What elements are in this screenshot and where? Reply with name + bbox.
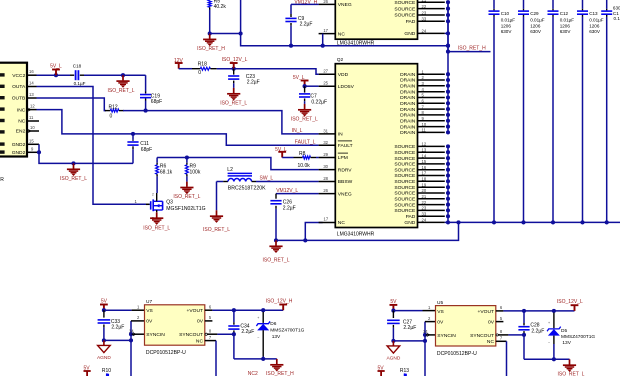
svg-text:SOURCE: SOURCE [394, 167, 416, 173]
svg-text:AGND: AGND [386, 355, 400, 361]
svg-text:LPM: LPM [338, 155, 348, 161]
svg-text:BBSW: BBSW [338, 179, 353, 185]
svg-text:NC2: NC2 [248, 371, 258, 376]
capacitor C27 [392, 311, 394, 318]
pin 9 [27, 151, 39, 153]
svg-text:ISO_RET_L: ISO_RET_L [60, 176, 87, 182]
svg-text:R13: R13 [400, 368, 409, 374]
ground ISO_RET_L [121, 73, 125, 77]
svg-text:OUTA: OUTA [12, 84, 26, 90]
Q2 right pin stubs [418, 73, 445, 75]
svg-text:DRAIN: DRAIN [400, 84, 416, 90]
svg-text:MMSZ4700T1G: MMSZ4700T1G [561, 334, 595, 340]
svg-text:1206: 1206 [589, 23, 600, 28]
svg-text:R18: R18 [198, 62, 207, 68]
svg-text:40.2k: 40.2k [214, 4, 227, 10]
wire Q2 gnd to cap bank [445, 221, 620, 223]
U7 right stubs [205, 309, 213, 311]
svg-text:C13: C13 [589, 11, 598, 16]
svg-text:R: R [0, 177, 4, 183]
svg-text:2: 2 [152, 192, 154, 196]
svg-text:DRAIN: DRAIN [400, 101, 416, 107]
svg-text:SYNCIN: SYNCIN [146, 332, 165, 338]
pin 10 [27, 130, 39, 132]
wire L2 left to gnd [216, 182, 218, 211]
svg-text:Q3: Q3 [166, 200, 173, 206]
svg-text:1206: 1206 [560, 23, 571, 28]
svg-text:ISO_RET_H: ISO_RET_H [197, 46, 225, 52]
svg-text:20: 20 [422, 188, 427, 193]
svg-text:NC: NC [196, 338, 204, 344]
GaN FET Q1 (cut off at top) [335, 0, 417, 39]
svg-text:LMG3410RWHR: LMG3410RWHR [337, 231, 375, 237]
svg-text:16: 16 [422, 165, 427, 170]
wire GND2 [37, 150, 41, 154]
svg-text:SW_L: SW_L [260, 176, 274, 182]
ground ISO_RET_L [156, 212, 158, 217]
svg-text:U7: U7 [146, 299, 152, 305]
svg-text:ISO_12V_L: ISO_12V_L [222, 57, 248, 63]
wire Q2 gnd return [274, 238, 278, 242]
svg-text:SOURCE: SOURCE [394, 173, 416, 179]
svg-text:C29: C29 [530, 11, 539, 16]
svg-text:2.2µF: 2.2µF [531, 328, 544, 334]
wire VNEG / C9 [291, 3, 319, 5]
svg-text:DRAIN: DRAIN [400, 95, 416, 101]
svg-text:EN2: EN2 [16, 129, 26, 135]
svg-text:SYNCIN: SYNCIN [437, 333, 456, 339]
svg-text:SOURCE: SOURCE [394, 208, 416, 214]
IC U7 [145, 305, 205, 345]
svg-text:2.2µF: 2.2µF [283, 206, 296, 212]
wire 0V/SYNCIN U5 [424, 322, 426, 376]
svg-text:11: 11 [29, 115, 34, 120]
ground ISO_RET_L [233, 88, 235, 93]
svg-text:C12: C12 [560, 11, 569, 16]
svg-text:1206: 1206 [501, 23, 512, 28]
svg-text:0.01µF: 0.01µF [589, 17, 604, 22]
ground ISO_RET_L [275, 240, 277, 245]
ground ISO_RET_H [276, 359, 278, 364]
resistor R9 [185, 155, 189, 159]
svg-text:DRAIN: DRAIN [400, 72, 416, 78]
svg-text:+: + [257, 316, 259, 320]
svg-text:15: 15 [29, 138, 34, 143]
svg-text:ISO_RET_L: ISO_RET_L [108, 88, 135, 94]
wire Q1 source bus / ISO_RET_H bus [447, 2, 449, 52]
svg-text:31: 31 [323, 128, 328, 133]
svg-text:0V: 0V [488, 320, 495, 326]
svg-text:+VOUT: +VOUT [187, 308, 203, 314]
svg-text:26: 26 [323, 188, 328, 193]
svg-text:2.2µF: 2.2µF [241, 329, 254, 335]
svg-text:SOURCE: SOURCE [394, 150, 416, 156]
gate driver U1 (cut off at left edge) [0, 63, 27, 157]
svg-text:SYNCOUT: SYNCOUT [179, 332, 203, 338]
wire C27 bottom [391, 339, 395, 343]
svg-text:10: 10 [30, 125, 35, 130]
wire bottom U5 [524, 358, 570, 360]
power ISO_12V_L [574, 306, 576, 311]
svg-text:ISO_RET_L: ISO_RET_L [263, 258, 290, 264]
svg-text:10: 10 [422, 122, 427, 127]
svg-text:ISO_12V_L: ISO_12V_L [557, 299, 583, 305]
svg-text:VS: VS [437, 309, 444, 315]
svg-text:NC: NC [487, 339, 495, 345]
pin 14 [27, 86, 37, 88]
svg-text:12: 12 [422, 142, 427, 147]
svg-text:68pF: 68pF [151, 99, 162, 105]
svg-text:11: 11 [422, 128, 427, 133]
svg-text:R12: R12 [109, 104, 118, 110]
wire VCC2 5V_L net [37, 74, 71, 76]
svg-text:16: 16 [29, 69, 34, 74]
svg-text:NC: NC [338, 220, 346, 226]
wire SYNCOUT to C28 [508, 334, 524, 336]
svg-text:DRAIN: DRAIN [400, 89, 416, 95]
wire R12 to IN_L [123, 110, 146, 112]
svg-text:15: 15 [422, 159, 427, 164]
svg-text:13: 13 [422, 147, 427, 152]
wire OUTA to Q3 gate [37, 87, 147, 205]
svg-text:29: 29 [323, 152, 328, 157]
svg-text:25: 25 [323, 81, 328, 86]
svg-text:1206: 1206 [530, 23, 541, 28]
svg-text:MGSF1N02LT1G: MGSF1N02LT1G [166, 206, 205, 212]
U5 right stubs [496, 310, 504, 312]
wire C33 bottom [102, 338, 106, 342]
power 5V [103, 305, 105, 310]
power ISO_12V_L [232, 67, 236, 71]
power 5V_L [281, 153, 283, 158]
wire +VOUT U5 [503, 310, 574, 312]
svg-text:5V: 5V [390, 299, 397, 305]
svg-text:0: 0 [110, 114, 113, 120]
zener diode D6 [262, 312, 264, 323]
Q1 right stubs [418, 1, 445, 3]
svg-text:ISO_12V_H: ISO_12V_H [266, 298, 293, 304]
svg-text:23: 23 [422, 206, 427, 211]
svg-text:D6: D6 [270, 321, 276, 327]
svg-text:ISO_RET_L: ISO_RET_L [220, 100, 247, 106]
capacitor C28 [523, 311, 525, 323]
svg-text:VS: VS [146, 308, 153, 314]
power 5V [392, 306, 394, 311]
svg-text:0.01µF: 0.01µF [560, 17, 575, 22]
svg-text:13V: 13V [562, 340, 571, 346]
svg-text:24: 24 [422, 218, 427, 223]
ground ISO_RET_L [186, 182, 188, 187]
svg-text:C18: C18 [73, 64, 82, 69]
svg-text:RDRV: RDRV [338, 167, 353, 173]
Q1 left pins [319, 3, 336, 5]
svg-text:14: 14 [423, 329, 428, 334]
svg-text:17: 17 [323, 28, 328, 33]
svg-text:NC: NC [18, 119, 26, 125]
wire VS U5 [391, 309, 395, 313]
svg-text:SOURCE: SOURCE [394, 144, 416, 150]
wire bottom U7 [234, 358, 277, 360]
wire Q2 source bus [447, 146, 449, 222]
svg-text:VM12V_L: VM12V_L [276, 188, 298, 194]
svg-text:DRAIN: DRAIN [400, 130, 416, 136]
svg-text:AGND: AGND [97, 355, 111, 361]
svg-text:VNEG: VNEG [338, 191, 352, 197]
svg-text:0V: 0V [197, 319, 204, 325]
svg-text:GND: GND [404, 220, 415, 226]
svg-text:R8: R8 [299, 151, 306, 157]
svg-text:17: 17 [324, 217, 329, 222]
ground AGND [392, 341, 394, 346]
svg-text:D5: D5 [561, 328, 567, 334]
svg-text:ISO_RET_L: ISO_RET_L [203, 227, 230, 233]
svg-text:SOURCE: SOURCE [394, 162, 416, 168]
svg-text:2.2µF: 2.2µF [111, 325, 124, 331]
svg-text:27: 27 [323, 69, 328, 74]
capacitor C18 [75, 70, 77, 80]
svg-text:SOURCE: SOURCE [394, 197, 416, 203]
svg-text:SOURCE: SOURCE [394, 185, 416, 191]
svg-text:630V: 630V [560, 29, 572, 34]
ground ISO_RET_H [208, 31, 212, 35]
wire NC pin17 [305, 223, 322, 241]
svg-text:13V: 13V [272, 334, 281, 340]
svg-text:DRAIN: DRAIN [400, 124, 416, 130]
svg-text:VNEG: VNEG [338, 2, 352, 8]
pin 11 [27, 120, 39, 122]
svg-text:FAULT: FAULT [338, 143, 353, 149]
wire RDRV net [157, 158, 319, 170]
wire INC to FAULT_L [37, 110, 319, 146]
svg-text:DRAIN: DRAIN [400, 119, 416, 125]
power 12V [178, 64, 180, 69]
svg-text:630V: 630V [530, 29, 542, 34]
svg-text:28: 28 [323, 176, 328, 181]
capacitor C11 [131, 132, 135, 136]
ground ISO_RET_L [71, 161, 75, 165]
svg-text:14: 14 [422, 153, 427, 158]
resistor R6 [156, 158, 158, 163]
pin 13 [27, 97, 37, 99]
svg-text:PAD: PAD [406, 214, 416, 220]
capacitor C23 [233, 69, 235, 75]
svg-text:GND2: GND2 [12, 150, 26, 156]
svg-text:SYNCOUT: SYNCOUT [470, 333, 494, 339]
svg-text:12V: 12V [174, 58, 184, 64]
svg-text:13: 13 [29, 92, 34, 97]
svg-text:SOURCE: SOURCE [394, 13, 416, 19]
capacitor C29 [523, 0, 525, 9]
svg-text:18: 18 [422, 177, 427, 182]
svg-text:Q2: Q2 [337, 57, 344, 63]
svg-text:SOURCE: SOURCE [394, 156, 416, 162]
wire Q2 drain bus [447, 2, 449, 133]
capacitor C34 [233, 310, 235, 322]
wire ISO_RET_H net [210, 34, 448, 46]
svg-text:0: 0 [198, 70, 201, 76]
svg-text:630V: 630V [589, 29, 601, 34]
svg-text:33: 33 [422, 212, 427, 217]
capacitor C33 [103, 310, 105, 317]
capacitor C10 [493, 0, 495, 9]
wire SYNCOUT to C34 [217, 333, 234, 335]
svg-text:26: 26 [323, 0, 328, 4]
svg-text:U5: U5 [437, 300, 443, 306]
svg-text:IN: IN [338, 132, 343, 138]
svg-text:0.1: 0.1 [614, 16, 620, 21]
pin 15 [27, 143, 39, 145]
zener diode D5 [553, 313, 555, 329]
Q2 left pin stubs [319, 73, 336, 75]
svg-text:5V_L: 5V_L [50, 64, 62, 70]
wire NC17 Q1 [322, 34, 324, 46]
wire to VDD [234, 69, 319, 75]
svg-text:DRAIN: DRAIN [400, 113, 416, 119]
resistor R12 [105, 110, 110, 112]
svg-text:17: 17 [422, 171, 427, 176]
svg-text:0V: 0V [146, 319, 153, 325]
svg-text:10.0k: 10.0k [298, 163, 311, 169]
svg-text:VDD: VDD [338, 72, 349, 78]
svg-text:12: 12 [30, 104, 35, 109]
svg-text:C7: C7 [310, 93, 317, 99]
power 5V_L [54, 73, 58, 77]
svg-text:LDO5V: LDO5V [338, 84, 355, 90]
svg-text:68.1k: 68.1k [160, 170, 173, 176]
wire OUTB [37, 98, 107, 111]
svg-text:R10: R10 [102, 368, 111, 374]
wire 0V/SYNCIN U7 [130, 321, 132, 376]
svg-text:PAD: PAD [406, 19, 416, 25]
resistor R8 [282, 157, 293, 159]
GaN FET Q2 [335, 64, 417, 228]
svg-text:FAULT_L: FAULT_L [295, 139, 316, 145]
resistor R18 [179, 68, 192, 70]
svg-text:30: 30 [323, 164, 328, 169]
svg-text:ISO_RET_L: ISO_RET_L [291, 117, 318, 123]
inductor L2 [217, 181, 224, 183]
IC U5 [436, 306, 496, 346]
pin 16 [27, 74, 37, 76]
ground ISO_RET_L [569, 359, 571, 364]
svg-text:ISO_RET_H: ISO_RET_H [266, 371, 294, 376]
svg-text:DCP010512BP-U: DCP010512BP-U [146, 350, 186, 356]
svg-text:19: 19 [422, 182, 427, 187]
svg-text:~: ~ [257, 335, 259, 339]
svg-text:2.2µF: 2.2µF [300, 22, 313, 28]
svg-text:VCC2: VCC2 [12, 73, 25, 79]
capacitor C19 [140, 94, 151, 96]
wire to C19 [145, 75, 147, 91]
svg-text:100k: 100k [190, 170, 201, 176]
svg-text:14: 14 [129, 328, 134, 333]
transistor Q3 [150, 203, 151, 205]
svg-text:32: 32 [323, 140, 328, 145]
svg-text:L2: L2 [227, 167, 233, 173]
svg-text:C10: C10 [501, 11, 510, 16]
svg-text:0V: 0V [437, 320, 444, 326]
svg-text:NC: NC [338, 31, 346, 37]
wire VM12V_L [276, 193, 319, 195]
power 5V_L [304, 81, 306, 86]
svg-text:5V_L: 5V_L [293, 75, 305, 81]
ground ISO_RET_L [216, 210, 218, 215]
svg-text:14: 14 [29, 81, 34, 86]
svg-text:IN_L: IN_L [292, 128, 303, 134]
svg-text:5V_L: 5V_L [275, 147, 287, 153]
wire +VOUT U7 [212, 309, 283, 311]
svg-text:OUTB: OUTB [12, 96, 26, 102]
svg-text:ISO_RET_L: ISO_RET_L [143, 225, 170, 231]
wire LDO5V [303, 84, 307, 88]
capacitor C14 (cut off at right edge) [606, 0, 608, 9]
svg-text:SOURCE: SOURCE [394, 202, 416, 208]
capacitor C12 [552, 0, 554, 9]
svg-text:+VOUT: +VOUT [478, 309, 494, 315]
power ISO_12V_H [282, 305, 284, 310]
svg-text:2.2µF: 2.2µF [247, 80, 260, 86]
svg-text:0.01µF: 0.01µF [501, 17, 516, 22]
svg-text:DRAIN: DRAIN [400, 107, 416, 113]
pin 12 [27, 109, 37, 111]
ground AGND [103, 340, 105, 345]
wire NC U5 [506, 341, 508, 376]
ground ISO_RET_L [304, 104, 306, 109]
svg-text:SOURCE: SOURCE [394, 179, 416, 185]
svg-text:0.22µF: 0.22µF [311, 100, 327, 106]
svg-text:INC: INC [17, 107, 26, 113]
svg-text:GND2: GND2 [12, 142, 26, 148]
svg-text:MMSZ4700T1G: MMSZ4700T1G [270, 328, 304, 334]
svg-text:630V: 630V [501, 29, 513, 34]
svg-text:22: 22 [422, 200, 427, 205]
svg-text:68pF: 68pF [141, 147, 152, 153]
svg-text:21: 21 [422, 194, 427, 199]
capacitor C13 [582, 0, 584, 9]
svg-text:0.1µF: 0.1µF [74, 81, 86, 86]
svg-text:SOURCE: SOURCE [394, 0, 416, 6]
svg-text:BRC2518T220K: BRC2518T220K [228, 185, 266, 191]
svg-text:GND: GND [404, 31, 415, 37]
svg-text:0.01µF: 0.01µF [530, 17, 545, 22]
svg-text:~: ~ [548, 340, 550, 344]
wire NC2 [215, 341, 217, 376]
capacitor C9 [285, 17, 296, 19]
svg-text:2.2µF: 2.2µF [403, 325, 416, 331]
svg-text:ISO_RET_L: ISO_RET_L [558, 372, 585, 376]
capacitor C7 [304, 86, 306, 92]
svg-text:+: + [548, 321, 550, 325]
svg-text:SOURCE: SOURCE [394, 6, 416, 12]
wire VS U7 [102, 308, 106, 312]
svg-text:SOURCE: SOURCE [394, 191, 416, 197]
svg-text:ISO_RET_L: ISO_RET_L [173, 194, 200, 200]
capacitor C26 [275, 194, 277, 199]
svg-text:DRAIN: DRAIN [400, 78, 416, 84]
svg-text:630: 630 [613, 5, 620, 10]
resistor R5 [208, 0, 211, 7]
svg-text:DCP010512BP-U: DCP010512BP-U [437, 351, 477, 357]
node ISO_RET_H label [448, 51, 491, 53]
svg-text:5V: 5V [101, 299, 108, 305]
wire from top at x=240.6 [240, 0, 242, 34]
svg-text:ISO_RET_H: ISO_RET_H [458, 46, 486, 52]
